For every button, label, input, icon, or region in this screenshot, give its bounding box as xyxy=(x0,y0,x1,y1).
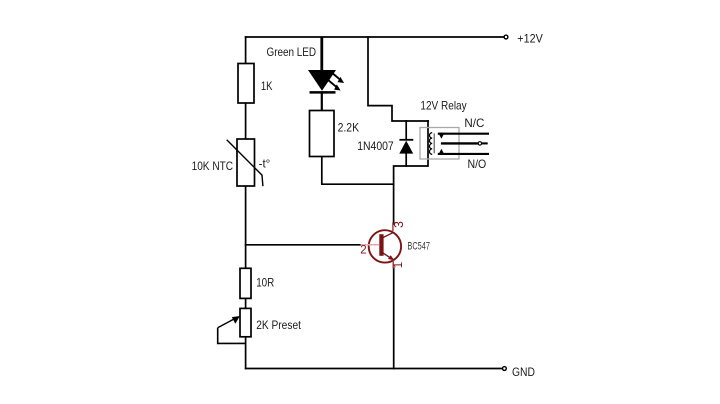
svg-text:GND: GND xyxy=(512,366,535,379)
svg-text:N/C: N/C xyxy=(464,117,484,130)
svg-text:Green LED: Green LED xyxy=(267,46,317,59)
svg-text:1N4007: 1N4007 xyxy=(357,140,394,153)
svg-text:1: 1 xyxy=(393,262,405,268)
svg-text:2.2K: 2.2K xyxy=(338,122,360,135)
svg-text:2K Preset: 2K Preset xyxy=(256,319,301,332)
svg-text:-t°: -t° xyxy=(259,157,271,170)
svg-text:1K: 1K xyxy=(261,80,273,93)
svg-text:BC547: BC547 xyxy=(407,240,430,252)
svg-text:+12V: +12V xyxy=(517,33,543,45)
svg-text:N/O: N/O xyxy=(468,159,487,172)
svg-text:10R: 10R xyxy=(256,277,274,290)
svg-text:10K NTC: 10K NTC xyxy=(192,161,234,174)
svg-text:2: 2 xyxy=(360,244,366,256)
svg-text:3: 3 xyxy=(392,221,406,228)
svg-text:12V Relay: 12V Relay xyxy=(420,100,467,113)
